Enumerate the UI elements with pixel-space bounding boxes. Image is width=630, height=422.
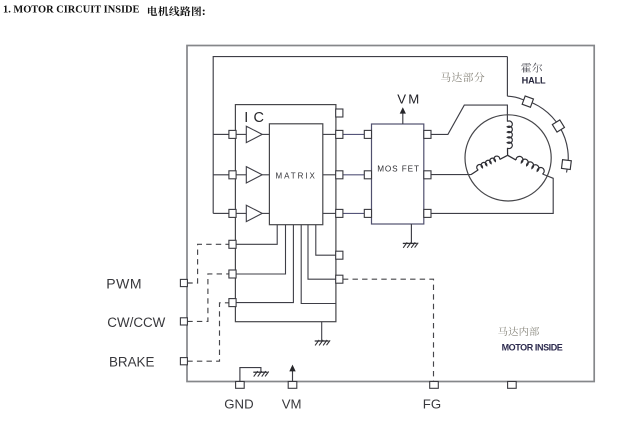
- winding coil right: [516, 156, 544, 174]
- wire: matrix right row3: [323, 212, 336, 214]
- motor stator circle: [465, 115, 551, 201]
- wire: pin1 to A1 and A1 to matrix: [236, 133, 246, 135]
- pin: IC left row1: [229, 130, 236, 138]
- wire: bus stub to IC pin1: [213, 133, 229, 135]
- ground symbol near GND pin: [253, 371, 268, 377]
- svg-text:PWM: PWM: [106, 276, 142, 292]
- pin: MOSFET right row1: [424, 130, 431, 138]
- wire: matrix out A to IC pin4: [236, 225, 277, 245]
- ground symbol under IC: [315, 340, 330, 346]
- wire: IC ground stem: [321, 322, 323, 341]
- pin: MOSFET left row3: [364, 209, 371, 217]
- hall sensor S1: [522, 96, 533, 107]
- label 马达内部: [498, 327, 539, 336]
- wire: top hall feedback line: [213, 57, 507, 214]
- svg-text:1. MOTOR CIRCUIT INSIDE: 1. MOTOR CIRCUIT INSIDE: [3, 5, 140, 16]
- svg-text:HALL: HALL: [522, 76, 546, 86]
- wire: VM stem above MOSFET: [402, 112, 404, 124]
- pin: IC right row3: [336, 209, 343, 217]
- dashed wire: CW/CCW to IC pin5: [187, 274, 229, 322]
- wire: matrix out C to IC pin6: [236, 225, 294, 303]
- wire: MOSFET row1 to motor top: [431, 105, 507, 134]
- pin: PWM terminal: [180, 279, 187, 286]
- MOS FET block: [372, 124, 424, 224]
- wire: IC to MOSFET row3: [343, 212, 364, 214]
- wire: matrix right row2: [323, 174, 336, 176]
- pin: IC right R1: [336, 251, 343, 259]
- wire: pin2 to A2 and A2 to matrix: [236, 174, 246, 176]
- wire: matrix out B to IC pin5: [236, 225, 286, 274]
- winding coil left: [477, 156, 500, 170]
- buffer amp A1: [246, 126, 262, 142]
- label 马达部分: [441, 72, 484, 82]
- wire: hall feed vertical: [506, 57, 508, 97]
- pin: IC right row2: [336, 171, 343, 179]
- VM arrowhead: [400, 107, 406, 113]
- pin: VM terminal: [288, 382, 297, 389]
- hall sensor S2: [552, 120, 564, 132]
- svg-text:VM: VM: [282, 396, 302, 411]
- pin: IC left row2: [229, 171, 236, 179]
- pin: IC left pin6: [229, 299, 236, 307]
- label 霍尔: [521, 63, 542, 73]
- pin: MOSFET left row1: [364, 130, 371, 138]
- dashed wire: IC pinR2 to FG: [343, 279, 434, 381]
- wire: MOSFET ground stem: [410, 224, 412, 243]
- pin: FG terminal: [430, 382, 439, 389]
- pin: IC left pin4: [229, 240, 236, 248]
- hall sensor arc: [507, 96, 568, 172]
- wire: left coil tail: [471, 170, 478, 175]
- hall sensor S3: [561, 160, 571, 170]
- pin: unlabeled terminal: [508, 382, 517, 389]
- svg-text:MATRIX: MATRIX: [276, 171, 317, 180]
- svg-text::: :: [202, 4, 206, 18]
- dashed wire: PWM to IC pin4: [187, 244, 229, 283]
- pin: IC right top: [336, 109, 343, 117]
- wire: VM pin riser: [292, 368, 294, 381]
- pin: GND terminal: [236, 382, 245, 389]
- wire: center node stub top: [507, 148, 509, 155]
- pin: IC right row1: [336, 130, 343, 138]
- winding coil top: [507, 121, 512, 149]
- wire: matrix out F to IC right pin R1: [316, 225, 336, 256]
- svg-text:MOS FET: MOS FET: [377, 165, 420, 174]
- wire: pin3 to A3 and A3 to matrix: [236, 212, 246, 214]
- pin: IC left pin5: [229, 270, 236, 278]
- wire: IC to MOSFET row1: [343, 133, 364, 135]
- svg-text:FG: FG: [423, 396, 441, 411]
- wire: IC to MOSFET row2: [343, 174, 364, 176]
- dashed wire: BRAKE to IC pin6: [187, 303, 229, 361]
- pin: MOSFET left row2: [364, 171, 371, 179]
- wire: matrix right row1: [323, 133, 336, 135]
- IC block U1: [235, 105, 336, 322]
- svg-text:MOTOR INSIDE: MOTOR INSIDE: [502, 342, 563, 352]
- pin: MOSFET right row2: [424, 171, 431, 179]
- svg-text:VM: VM: [397, 92, 421, 107]
- wire: matrix out E to IC right pin R2: [308, 225, 336, 280]
- outer border (motor inside boundary): [187, 46, 594, 382]
- buffer amp A2: [246, 167, 262, 183]
- svg-text:CW/CCW: CW/CCW: [107, 315, 165, 330]
- svg-text:BRAKE: BRAKE: [109, 355, 154, 370]
- pin: CW/CCW terminal: [180, 318, 187, 325]
- svg-text:I C: I C: [244, 110, 264, 126]
- wire: MOSFET row3 to motor right coil: [431, 174, 553, 213]
- title chinese 电机线路图: [148, 6, 157, 16]
- wire: bus stub to IC pin2: [213, 174, 229, 176]
- ground symbol under MOSFET: [403, 242, 418, 248]
- pin: IC left row3: [229, 209, 236, 217]
- wire: bus stub to IC pin3: [213, 212, 229, 214]
- wire: matrix out D to IC right edge: [301, 225, 336, 304]
- pin: IC right R2: [336, 275, 343, 283]
- wire: center node stub left: [500, 155, 508, 159]
- VM riser arrowhead: [289, 365, 295, 372]
- wire: center node stub right: [508, 155, 516, 160]
- pin: MOSFET right row3: [424, 209, 431, 217]
- wire: MOSFET row2 to motor left coil: [431, 174, 471, 176]
- buffer amp A3: [246, 205, 262, 221]
- MATRIX block: [269, 124, 322, 225]
- svg-text:GND: GND: [224, 396, 253, 411]
- pin: BRAKE terminal: [180, 358, 187, 365]
- wire: GND pin riser: [240, 368, 261, 382]
